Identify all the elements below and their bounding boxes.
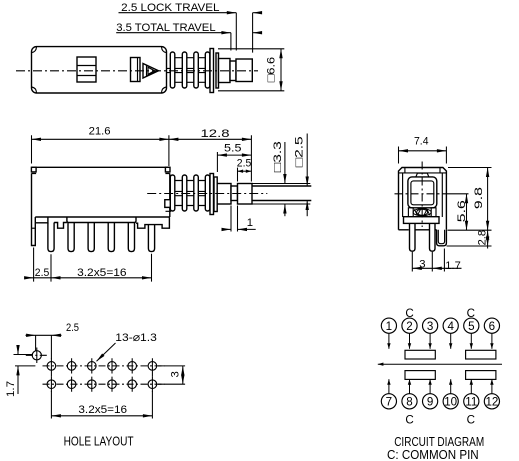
- svg-text:C: C: [405, 413, 413, 426]
- body left wall and peg: [32, 173, 36, 245]
- svg-text:5: 5: [468, 320, 474, 333]
- svg-text:4: 4: [447, 320, 454, 333]
- plunger cap: [236, 59, 252, 82]
- boss outer: [408, 177, 437, 208]
- svg-text:5.5: 5.5: [224, 143, 242, 155]
- svg-text:12.8: 12.8: [201, 128, 230, 140]
- hole r1c1: [47, 362, 56, 371]
- dim line 21.6 / 12.8: [32, 138, 252, 140]
- contact bar top right: [466, 350, 496, 359]
- bracket outer: [437, 230, 447, 246]
- corner mark top-left: [32, 47, 37, 53]
- row centerline 1: [43, 365, 165, 367]
- dim 6.6 extension lines: [218, 49, 284, 91]
- svg-text:3: 3: [427, 320, 433, 333]
- wall step: [166, 207, 171, 211]
- spring coil 4: [205, 52, 210, 88]
- extension lines travel dims: [231, 13, 253, 53]
- flange plate 2: [214, 177, 217, 212]
- switch body: [32, 47, 167, 93]
- svg-text:3.2x5=16: 3.2x5=16: [78, 404, 127, 416]
- dim 6.6 line: [280, 49, 282, 91]
- svg-text:13-⌀1.3: 13-⌀1.3: [115, 332, 157, 344]
- flange plate 2: [216, 53, 219, 88]
- svg-text:7: 7: [386, 395, 392, 408]
- svg-text:11: 11: [465, 395, 477, 408]
- spring coil 1: [170, 175, 175, 211]
- pin 4: [443, 318, 458, 333]
- centerline horizontal: [395, 193, 451, 195]
- pin 3: [423, 318, 438, 333]
- boss B long bar: [67, 217, 136, 223]
- svg-text:1.7: 1.7: [5, 381, 17, 397]
- pin 7: [381, 394, 396, 409]
- contact slider block: [77, 57, 96, 82]
- hole r2c6: [148, 380, 157, 389]
- svg-text:1: 1: [386, 320, 392, 333]
- hole r1c3: [88, 362, 97, 371]
- corner mark top-right: [162, 47, 167, 53]
- bottom profile right of boss B: [136, 217, 169, 228]
- svg-text:□3.3: □3.3: [272, 141, 284, 172]
- spring connectors: [172, 58, 211, 83]
- pin 5: [464, 318, 479, 333]
- dim 2.8: [447, 245, 492, 247]
- leg right: [430, 223, 436, 251]
- plunger neck groove: [230, 61, 236, 81]
- svg-text:3: 3: [170, 371, 182, 377]
- latch bar: [131, 58, 141, 82]
- inner top line: [399, 172, 447, 174]
- hole r1c4: [108, 362, 117, 371]
- flange plate 1: [210, 174, 214, 215]
- flange plate 1: [210, 49, 214, 93]
- dim 1.7: [14, 355, 36, 366]
- frame tab right: [165, 167, 170, 172]
- body bottom edge: [35, 216, 170, 218]
- contact bar top left: [405, 350, 435, 359]
- rod 2.5: [252, 186, 311, 201]
- row centerline 2: [43, 383, 165, 385]
- svg-text:12: 12: [485, 395, 498, 408]
- neck groove: [231, 186, 238, 201]
- spring connectors: [172, 181, 211, 206]
- latch arrow pointer: [143, 64, 159, 79]
- top bump: [416, 173, 429, 177]
- svg-text:1.7: 1.7: [445, 260, 461, 272]
- pin 5: [128, 223, 134, 252]
- dim 9.8: [448, 168, 492, 231]
- VIEW2 : main side view: [24, 125, 311, 281]
- svg-text:□6.6: □6.6: [266, 57, 278, 82]
- svg-text:7.4: 7.4: [414, 135, 429, 147]
- boss A: [35, 217, 48, 223]
- ear left: [408, 208, 413, 217]
- svg-text:21.6: 21.6: [89, 125, 111, 137]
- spring coil 4: [205, 175, 210, 211]
- svg-text:HOLE LAYOUT: HOLE LAYOUT: [64, 435, 134, 449]
- pin 1: [381, 318, 396, 333]
- VIEW1 : side view with travel dimensions: [16, 2, 284, 93]
- plunger rod inside spring: [170, 191, 210, 195]
- dim 5.6: [451, 193, 469, 195]
- pin 2: [68, 223, 74, 252]
- ear right: [431, 208, 436, 217]
- hole r2c3: [88, 380, 97, 389]
- corner mark bottom-left: [32, 87, 37, 93]
- step between pin1 and pin2: [54, 223, 67, 229]
- hole r2c1: [47, 380, 56, 389]
- dim 3 rows: [158, 366, 185, 384]
- corner cell right: [439, 168, 441, 173]
- hole r2c4: [108, 380, 117, 389]
- svg-text:1: 1: [247, 217, 253, 229]
- corner mark bottom-right: [162, 87, 167, 93]
- hole r2c2: [67, 380, 76, 389]
- hole vertical ticks: [37, 348, 153, 392]
- svg-text:2: 2: [406, 320, 412, 333]
- spring coil 2: [182, 52, 187, 88]
- peg hole centerline: [26, 354, 49, 356]
- common line: [378, 363, 502, 365]
- pin 2: [402, 318, 417, 333]
- body side ledges: [32, 172, 170, 174]
- svg-text:2.5: 2.5: [66, 322, 79, 334]
- boss inner: [411, 181, 434, 205]
- inner wall lines: [403, 173, 443, 217]
- plunger shaft: [219, 59, 231, 83]
- spring coil 3: [194, 175, 199, 211]
- VIEW3 : end view: [395, 135, 492, 271]
- svg-text:10: 10: [444, 395, 457, 408]
- body right wall: [169, 173, 171, 217]
- corner cell left: [404, 168, 406, 173]
- svg-text:9: 9: [427, 395, 433, 408]
- peg tick: [32, 227, 36, 229]
- svg-text:2.8: 2.8: [477, 230, 489, 246]
- frame tab left: [31, 167, 36, 172]
- peg hole: [32, 351, 41, 360]
- svg-text:8: 8: [406, 395, 412, 408]
- cap: [238, 184, 253, 205]
- outside arrows at cap face: [253, 12, 260, 14]
- svg-text:□2.5: □2.5: [294, 136, 306, 167]
- CIRCUIT DIAGRAM: [378, 307, 502, 461]
- cap edge extension lines: [252, 184, 310, 205]
- HOLE LAYOUT: [5, 322, 185, 449]
- pin 8: [402, 394, 417, 409]
- centerline view2: [147, 193, 267, 195]
- svg-text:5.6: 5.6: [456, 200, 468, 222]
- hole r2c5: [128, 380, 137, 389]
- shaft 3.3: [217, 184, 231, 205]
- wall box: [165, 200, 173, 208]
- pin 6: [484, 318, 499, 333]
- pin 9: [423, 394, 438, 409]
- contact bar bottom left: [405, 371, 435, 380]
- spring end-on: [413, 209, 431, 216]
- bracket inner: [438, 230, 444, 244]
- pin 3: [88, 223, 94, 252]
- hole r1c5: [128, 362, 137, 371]
- pin 1: [48, 223, 54, 252]
- centerline: [16, 70, 258, 72]
- plunger rod inside spring: [167, 68, 212, 72]
- pin 6: [148, 225, 154, 252]
- washer bar: [404, 217, 440, 224]
- pin 10: [443, 394, 458, 409]
- svg-text:C: C: [467, 413, 475, 426]
- svg-text:6: 6: [489, 320, 495, 333]
- hole r1c6: [148, 362, 157, 371]
- spring coil 1: [170, 52, 175, 88]
- pin 12: [484, 394, 499, 409]
- body top edge: [31, 166, 170, 168]
- spring coil 2: [182, 175, 187, 211]
- pin 4: [108, 223, 114, 252]
- spring coil 3: [194, 52, 199, 88]
- contact bar bottom right: [466, 371, 496, 380]
- svg-text:9.8: 9.8: [473, 187, 485, 209]
- leg left: [410, 223, 416, 251]
- svg-text:C: COMMON PIN: C: COMMON PIN: [387, 448, 479, 461]
- extension lines top: [32, 135, 252, 181]
- centerline vertical: [421, 162, 423, 228]
- svg-text:2.5: 2.5: [237, 158, 252, 170]
- body outline: [399, 168, 447, 230]
- hole r1c2: [67, 362, 76, 371]
- pin 11: [464, 394, 479, 409]
